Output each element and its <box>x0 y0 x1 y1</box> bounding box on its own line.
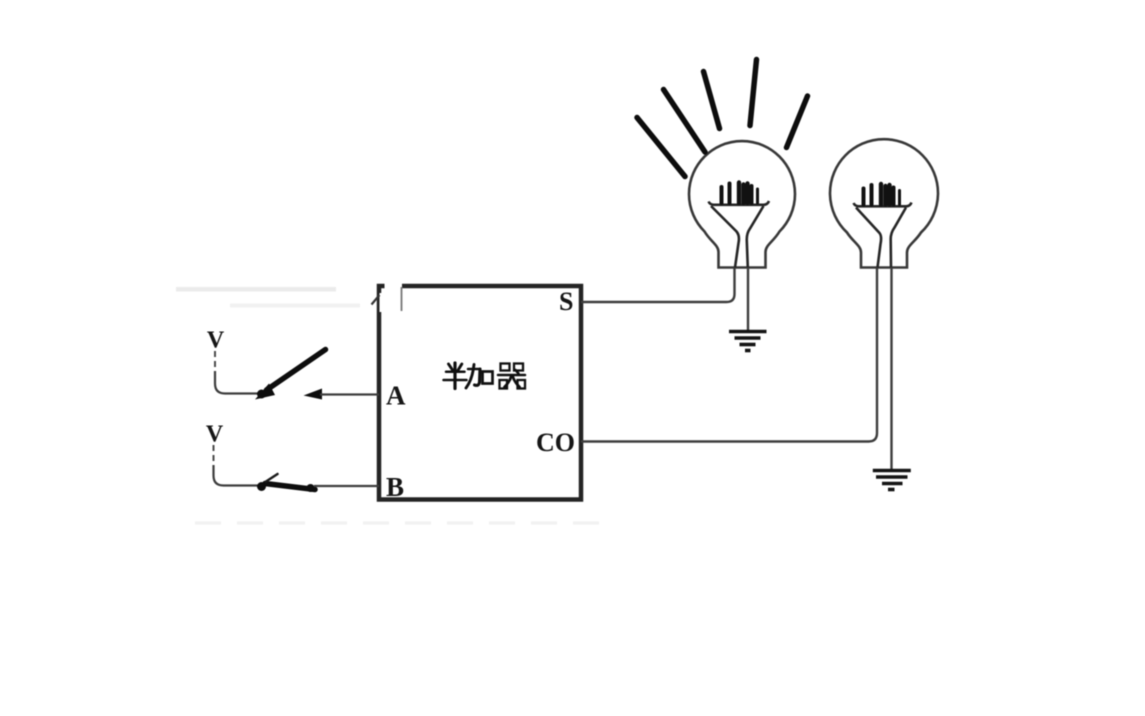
smudge dashes below box <box>195 521 610 524</box>
svg-text:V: V <box>206 422 224 448</box>
svg-text:A: A <box>386 381 406 411</box>
lamp L1 filament support funnel <box>709 201 770 268</box>
svg-text:S: S <box>559 287 573 316</box>
smudge streak above box <box>176 287 360 308</box>
white-out artifact on box top-left corner <box>380 281 403 312</box>
switch SW-B contact tip flick <box>266 474 278 482</box>
wire switch B to input B <box>314 485 379 487</box>
lamp L2 filament support funnel <box>854 203 912 268</box>
artifact tick at box left edge <box>372 295 380 305</box>
char 加 <box>468 368 480 371</box>
switch SW-A arm (open) <box>267 350 326 391</box>
switch SW-A arm arrowhead <box>255 384 275 400</box>
wire from V2 dashed drop <box>213 445 215 467</box>
switch SW-A pivot junction <box>257 390 266 399</box>
lamp L1 filament coil <box>722 183 758 204</box>
switch SW-B contact dot <box>307 484 315 492</box>
light rays above lamp L1 <box>637 60 808 177</box>
svg-text:CO: CO <box>536 428 575 457</box>
wire V1 corner to switch A pivot <box>215 371 258 394</box>
ray 1 <box>637 118 685 177</box>
ground symbol G2 <box>873 471 911 490</box>
wire V2 corner to switch B pivot <box>214 465 259 486</box>
half-adder box U1 <box>379 286 581 500</box>
lamp L2 filament coil <box>864 184 900 205</box>
lamp L1 glass envelope <box>689 141 795 267</box>
svg-text:V: V <box>207 328 225 354</box>
char 器 <box>501 364 510 371</box>
switch SW-B arm (closed) <box>265 484 315 490</box>
switch SW-B pivot junction <box>257 482 266 491</box>
lamp L2 right lead wire <box>890 268 892 471</box>
char 半 <box>449 364 454 372</box>
wire CO output to lamp L2 <box>581 268 877 442</box>
wire arrowhead on input A wire <box>304 389 323 400</box>
lamp L2 glass envelope <box>830 139 938 267</box>
wire from V1 dashed drop <box>214 351 216 373</box>
wire switch A to input A <box>320 393 379 395</box>
half-adder label 半加器 (drawn strokes) <box>444 363 526 389</box>
ray 4 <box>750 60 757 126</box>
ray 3 <box>704 72 720 129</box>
lamp L1 right lead wire <box>747 268 749 332</box>
ray 2 <box>664 90 706 153</box>
ground symbol G1 <box>729 332 767 351</box>
ray 5 <box>787 96 808 148</box>
wire S output to lamp L1 <box>581 268 735 303</box>
svg-text:B: B <box>386 472 404 502</box>
